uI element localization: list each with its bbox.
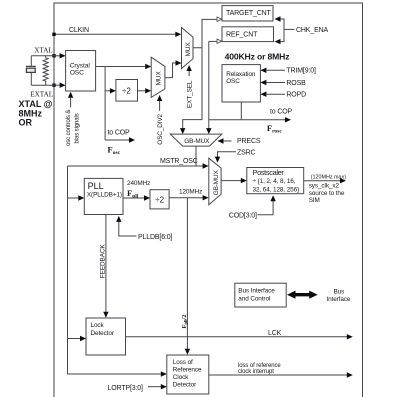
node EXTAL junction: [52, 84, 55, 87]
svg-text:Bus: Bus: [334, 288, 345, 295]
postscaler U4: [247, 168, 304, 194]
crystal Y1: [26, 66, 36, 72]
wire mux M1 output to mux M2: [165, 60, 182, 77]
module border box: [54, 3, 363, 397]
wire CHK_ENA: [275, 16, 295, 44]
svg-text:EXT_SEL: EXT_SEL: [186, 80, 193, 108]
wire TRIM input: [260, 68, 285, 73]
wire CLKIN: [54, 32, 181, 37]
svg-text:LORTP[3:0]: LORTP[3:0]: [108, 385, 144, 392]
wire GB-MUX to postscaler: [221, 178, 247, 183]
wire osc controls arrow: [68, 92, 73, 108]
svg-text:CHK_ENA: CHK_ENA: [296, 27, 328, 34]
svg-text:Detector: Detector: [91, 330, 115, 337]
svg-text:OSC_DIV2: OSC_DIV2: [157, 113, 164, 144]
svg-text:COD[3:0]: COD[3:0]: [229, 212, 257, 219]
svg-text:Interface: Interface: [326, 296, 351, 303]
svg-text:XTAL: XTAL: [34, 47, 53, 55]
wire PLL input: [68, 195, 85, 200]
wire PRECS select: [218, 138, 232, 143]
svg-text:to COP: to COP: [270, 108, 293, 115]
svg-text:source to the: source to the: [309, 190, 345, 197]
svg-text:Detector: Detector: [173, 381, 197, 388]
wire EXT_OSC net from mux M2: [180, 17, 222, 134]
svg-text:÷2: ÷2: [122, 86, 131, 95]
svg-text:PRECS: PRECS: [237, 138, 261, 145]
svg-text:Loss of: Loss of: [173, 359, 193, 366]
wire EXT_SEL select: [186, 65, 191, 76]
wire COD input: [257, 195, 275, 215]
label Bus Interface: [326, 288, 351, 303]
divider /2 (pll): [150, 190, 169, 209]
svg-text:400KHz or 8MHz: 400KHz or 8MHz: [225, 52, 290, 62]
wire ROPD input: [260, 92, 285, 97]
svg-text:Reference: Reference: [173, 366, 202, 373]
wire loss of reference interrupt output: [209, 372, 353, 377]
wire to loss detector: [68, 371, 167, 376]
wire bus interface double arrow: [287, 291, 318, 299]
oscillator U1 Crystal OSC: [66, 51, 96, 92]
wire OSC_DIV2 select: [157, 95, 162, 111]
svg-text:OR: OR: [19, 118, 33, 128]
wire PLL to div2: [123, 195, 150, 200]
mux GB-MUX (main): [209, 158, 221, 205]
svg-text:osc controls &: osc controls &: [66, 110, 72, 146]
label sys_clk_x2 source to the SIM: [309, 183, 345, 204]
loss of reference clock detector U6: [167, 355, 209, 394]
counter REF_CNT: [222, 27, 274, 42]
svg-text:Clock: Clock: [173, 374, 189, 381]
svg-text:(120MHz max): (120MHz max): [311, 174, 347, 180]
svg-text:240MHz: 240MHz: [127, 180, 150, 187]
svg-text:Frosc: Frosc: [267, 123, 282, 135]
svg-text:TRIM[9:0]: TRIM[9:0]: [286, 68, 316, 75]
svg-text:MUX: MUX: [185, 42, 192, 57]
svg-text:OSC: OSC: [226, 78, 240, 85]
wire sys_clk_x2 output: [304, 178, 346, 183]
wire div2 to mux: [138, 88, 152, 93]
svg-text:CLKIN: CLKIN: [69, 27, 89, 34]
wire FEEDBACK: [103, 215, 108, 318]
svg-text:to COP: to COP: [108, 130, 131, 137]
svg-text:Lock: Lock: [91, 322, 105, 329]
wire ZSRC select: [215, 152, 236, 163]
svg-text:PLL: PLL: [88, 181, 104, 191]
mux M1: [151, 57, 165, 97]
svg-text:EXTAL: EXTAL: [30, 91, 53, 99]
svg-text:GB-MUX: GB-MUX: [213, 169, 220, 195]
node CLKIN junction: [52, 33, 55, 36]
mux GB-MUX (top): [170, 134, 222, 146]
svg-text:TARGET_CNT: TARGET_CNT: [226, 10, 272, 17]
wire EXTAL to crystal osc: [54, 83, 66, 88]
svg-text:FEEDBACK: FEEDBACK: [99, 244, 106, 278]
divider /2 (osc): [116, 80, 138, 102]
wire MSTR_OSC net: [68, 146, 209, 169]
svg-text:ROPD: ROPD: [286, 92, 306, 99]
wire F_rosc net: [206, 41, 291, 134]
svg-text:MSTR_OSC: MSTR_OSC: [160, 158, 198, 165]
wire left feed riser: [67, 166, 69, 374]
wire F_rosc to REF_CNT: [209, 39, 222, 43]
svg-text:PLLDB[6:0]: PLLDB[6:0]: [138, 234, 173, 241]
svg-text:OSC: OSC: [70, 70, 84, 77]
lock detector U5: [86, 318, 126, 355]
svg-text:÷2: ÷2: [155, 195, 164, 204]
wire Fosc branch: [105, 67, 135, 143]
wire relaxation osc output: [240, 102, 242, 120]
node XTAL junction: [52, 54, 55, 57]
svg-text:÷ {1, 2, 4, 8, 16,: ÷ {1, 2, 4, 8, 16,: [253, 178, 296, 185]
svg-text:GB-MUX: GB-MUX: [184, 138, 210, 145]
pll U3: [84, 178, 123, 214]
svg-text:LCK: LCK: [268, 330, 282, 337]
svg-text:SIM: SIM: [309, 197, 320, 204]
svg-text:MUX: MUX: [156, 71, 163, 86]
counter TARGET_CNT: [222, 6, 273, 21]
svg-text:120MHz: 120MHz: [179, 188, 202, 195]
wire LCK output: [126, 334, 353, 339]
svg-text:Bus Interface: Bus Interface: [238, 288, 275, 295]
wire crystal osc output: [96, 64, 152, 69]
wire LORTP input: [148, 384, 167, 389]
label XTAL @ 8MHz OR: [19, 99, 53, 128]
wire lock detector input: [68, 336, 87, 341]
svg-text:bias signals: bias signals: [74, 113, 80, 143]
svg-text:32, 64, 128, 256}: 32, 64, 128, 256}: [253, 186, 301, 193]
svg-text:Postscaler: Postscaler: [253, 168, 285, 177]
svg-text:clock interrupt: clock interrupt: [238, 369, 274, 375]
wire PLLDB input: [116, 216, 136, 236]
wire F_pll/2 riser: [185, 198, 190, 355]
bus interface box: [235, 283, 286, 307]
svg-text:and Control: and Control: [238, 295, 270, 302]
svg-text:X(PLLDB+1): X(PLLDB+1): [87, 192, 122, 199]
wire ROSB input: [260, 80, 285, 85]
svg-text:sys_clk_x2: sys_clk_x2: [309, 183, 340, 190]
svg-text:ZSRC: ZSRC: [237, 149, 256, 156]
svg-text:Fpll/2: Fpll/2: [181, 314, 188, 329]
label osc controls and bias signals: [66, 110, 80, 146]
svg-text:ROSB: ROSB: [286, 80, 306, 87]
resistor (XTAL feedback): [43, 56, 48, 85]
svg-text:loss of reference: loss of reference: [238, 363, 281, 369]
label loss of reference clock interrupt: [238, 363, 281, 375]
svg-text:Fosc: Fosc: [108, 145, 121, 157]
wire XTAL net: [31, 56, 54, 85]
svg-text:REF_CNT: REF_CNT: [226, 32, 258, 39]
wire XTAL to crystal osc: [54, 53, 66, 58]
mux M2: [182, 28, 194, 69]
oscillator U2 Relaxation OSC: [222, 65, 260, 102]
wire 120MHz to GB-MUX: [169, 195, 209, 200]
